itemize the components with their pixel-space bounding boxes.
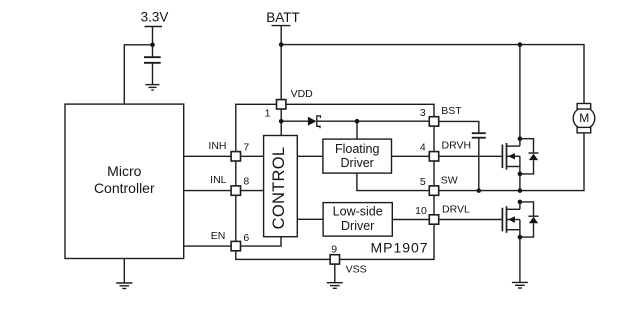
svg-text:VSS: VSS [346, 263, 367, 275]
pin 9 [330, 255, 339, 264]
wire floating driver bottom to SW pin5 [357, 173, 430, 191]
svg-text:3: 3 [420, 107, 426, 119]
svg-text:4: 4 [420, 142, 426, 154]
capacitor C1 [144, 57, 161, 63]
block low-side driver [323, 203, 392, 237]
pin 6 [231, 241, 240, 250]
pin 8 [231, 186, 240, 195]
transistor Q2 low-side [502, 202, 520, 237]
svg-text:MP1907: MP1907 [370, 239, 428, 255]
svg-text:M: M [579, 111, 589, 125]
block CONTROL [264, 136, 298, 237]
wire microcontroller to ground [123, 259, 125, 283]
node VDD/diode junction [279, 119, 284, 124]
ground (power stage) [512, 282, 528, 288]
wire SW rail [439, 133, 584, 191]
svg-text:DRVL: DRVL [442, 204, 470, 216]
capacitor C2 bootstrap [472, 133, 486, 138]
wire drain drop [519, 45, 521, 139]
block floating driver [323, 139, 392, 173]
node BST/floating driver junction [355, 119, 360, 124]
wire VDD pin1 to CONTROL [280, 109, 282, 136]
svg-text:Floating: Floating [335, 142, 380, 156]
wire floating driver to pin4 [392, 155, 430, 157]
svg-text:Controller: Controller [94, 180, 155, 196]
ground (under microcontroller) [116, 283, 132, 289]
motor M1 [573, 104, 595, 133]
pin 3 [429, 117, 438, 126]
wire low-side driver to pin10 [392, 219, 429, 221]
svg-text:INL: INL [210, 174, 227, 186]
svg-text:EN: EN [211, 230, 226, 242]
node Q2 drain/diode [518, 200, 523, 205]
svg-text:1: 1 [265, 108, 271, 120]
svg-text:3.3V: 3.3V [141, 9, 169, 24]
node Q1 source/diode [518, 172, 523, 177]
svg-text:Micro: Micro [107, 163, 141, 179]
svg-text:Driver: Driver [341, 156, 374, 170]
svg-text:CONTROL: CONTROL [270, 147, 288, 230]
node BATT junction [279, 42, 284, 47]
node Q1 drain/diode [518, 136, 523, 141]
node cap/SW [477, 188, 482, 193]
svg-text:BST: BST [441, 105, 462, 117]
wire pin6 to CONTROL bottom [241, 237, 282, 246]
wire cap to SW [478, 138, 480, 191]
svg-text:BATT: BATT [266, 10, 300, 25]
svg-text:5: 5 [420, 176, 426, 188]
diode D1 (schottky) [308, 116, 321, 128]
micro controller U2 [65, 104, 184, 258]
diode Q1 body [520, 139, 539, 174]
wire BST to bootstrap cap [439, 121, 479, 133]
svg-text:7: 7 [243, 141, 249, 153]
node SW / FETs [518, 188, 523, 193]
node Q2 source/diode [518, 235, 523, 240]
diode Q2 body [520, 202, 539, 237]
ground (under C1) [146, 85, 160, 91]
wire BATT top rail [281, 45, 584, 104]
svg-text:Low-side: Low-side [333, 205, 383, 219]
pin 10 [429, 215, 438, 224]
wire DRVL to gate [439, 219, 502, 221]
svg-text:SW: SW [441, 175, 458, 187]
supply BATT terminal [272, 26, 291, 100]
wire Q2 source to ground [519, 237, 521, 282]
supply 3.3V terminal [145, 27, 163, 58]
wire EN [184, 245, 232, 247]
svg-text:6: 6 [243, 232, 249, 244]
node top rail / FET drain [518, 42, 523, 47]
pin 5 [429, 186, 438, 195]
wire INL [184, 190, 232, 192]
pin 7 [231, 152, 240, 161]
svg-text:DRVH: DRVH [442, 140, 472, 152]
pin 4 [429, 152, 438, 161]
node 3.3V junction [150, 43, 155, 48]
wire diode anode [281, 120, 308, 122]
wire pin9 to ground [334, 264, 336, 282]
wire DRVH to gate [439, 155, 502, 157]
transistor Q1 high-side [502, 139, 520, 191]
ground (VSS) [327, 283, 343, 289]
svg-text:9: 9 [331, 243, 337, 255]
wire pin7 to CONTROL [241, 155, 264, 157]
svg-text:INH: INH [208, 140, 226, 152]
IC MP1907 outline [236, 104, 434, 259]
wire CONTROL to floating driver [297, 155, 323, 157]
wire CONTROL to low-side driver [297, 218, 323, 220]
wire pin8 to CONTROL [241, 190, 264, 192]
svg-text:VDD: VDD [291, 88, 314, 100]
wire 3.3V to microcontroller [124, 45, 152, 104]
svg-text:Driver: Driver [341, 219, 374, 233]
wire cap to ground [152, 63, 154, 85]
pin 1 [277, 100, 286, 109]
svg-text:8: 8 [243, 176, 249, 188]
wire INH [184, 155, 232, 157]
wire diode to BST [317, 120, 430, 122]
svg-text:10: 10 [415, 205, 427, 217]
wire to floating driver top [356, 121, 358, 139]
